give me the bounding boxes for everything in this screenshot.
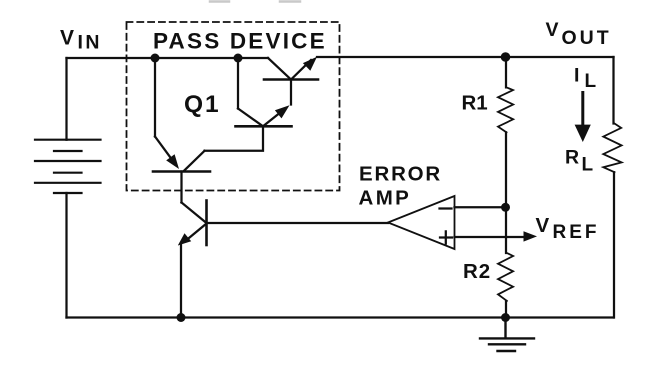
svg-text:REF: REF (553, 222, 600, 243)
wire: VIN top rail (67, 57, 269, 59)
node: junction dot left on VIN rail (151, 54, 160, 63)
wire: VIN vertical to battery (65, 58, 67, 140)
faint cropped caption remnants at top (210, 0, 300, 3)
resistor RL load (603, 124, 621, 318)
resistor R2 (498, 253, 513, 318)
svg-text:V: V (536, 214, 550, 237)
transistor Q1 PNP pass (153, 58, 210, 203)
svg-text:L: L (585, 71, 597, 92)
label R2 (463, 260, 491, 283)
wire: VOUT top rail (317, 56, 614, 58)
node: junction dot right on VIN rail (234, 54, 243, 63)
ground symbol (480, 318, 534, 352)
svg-text:R: R (565, 147, 579, 169)
svg-text:I: I (574, 65, 579, 87)
svg-text:V: V (546, 19, 559, 41)
svg-text:OUT: OUT (562, 27, 612, 49)
svg-text:IN: IN (78, 32, 103, 54)
node: feedback junction dot (501, 203, 510, 212)
op-amp U1 error amplifier (388, 196, 524, 249)
wire: ground bottom rail (67, 316, 614, 318)
label ERROR AMP (359, 162, 443, 209)
label VREF (536, 214, 600, 243)
svg-text:L: L (582, 155, 594, 176)
node: VOUT junction dot (501, 52, 511, 62)
node: ground junction dot (501, 313, 510, 322)
label VIN (60, 26, 102, 53)
battery B1 (35, 140, 101, 193)
label RL (565, 147, 594, 176)
svg-text:AMP: AMP (359, 187, 412, 210)
transistor Q2 driver NPN (178, 201, 388, 318)
transistor Q1 top output NPN (264, 57, 318, 105)
wire: battery bottom lead (65, 193, 67, 318)
arrow VREF (524, 231, 538, 241)
svg-text:PASS DEVICE: PASS DEVICE (153, 28, 327, 53)
svg-text:ERROR: ERROR (359, 162, 442, 185)
label IL (574, 65, 597, 92)
resistor R1 (498, 57, 513, 207)
label PASS DEVICE (153, 28, 327, 53)
svg-text:Q1: Q1 (184, 91, 221, 118)
transistor Q1 middle NPN (205, 58, 292, 151)
label Q1 (184, 91, 221, 118)
wire: divider mid (505, 207, 507, 253)
node: emitter junction dot on ground rail (177, 313, 186, 322)
wire: VOUT right drop (612, 57, 614, 124)
label R1 (462, 92, 488, 115)
arrow IL load current (581, 93, 584, 127)
svg-text:R1: R1 (462, 92, 488, 115)
label VOUT (546, 19, 612, 49)
svg-text:V: V (60, 26, 74, 49)
svg-text:R2: R2 (463, 260, 491, 283)
dashed box PASS DEVICE (127, 22, 340, 191)
